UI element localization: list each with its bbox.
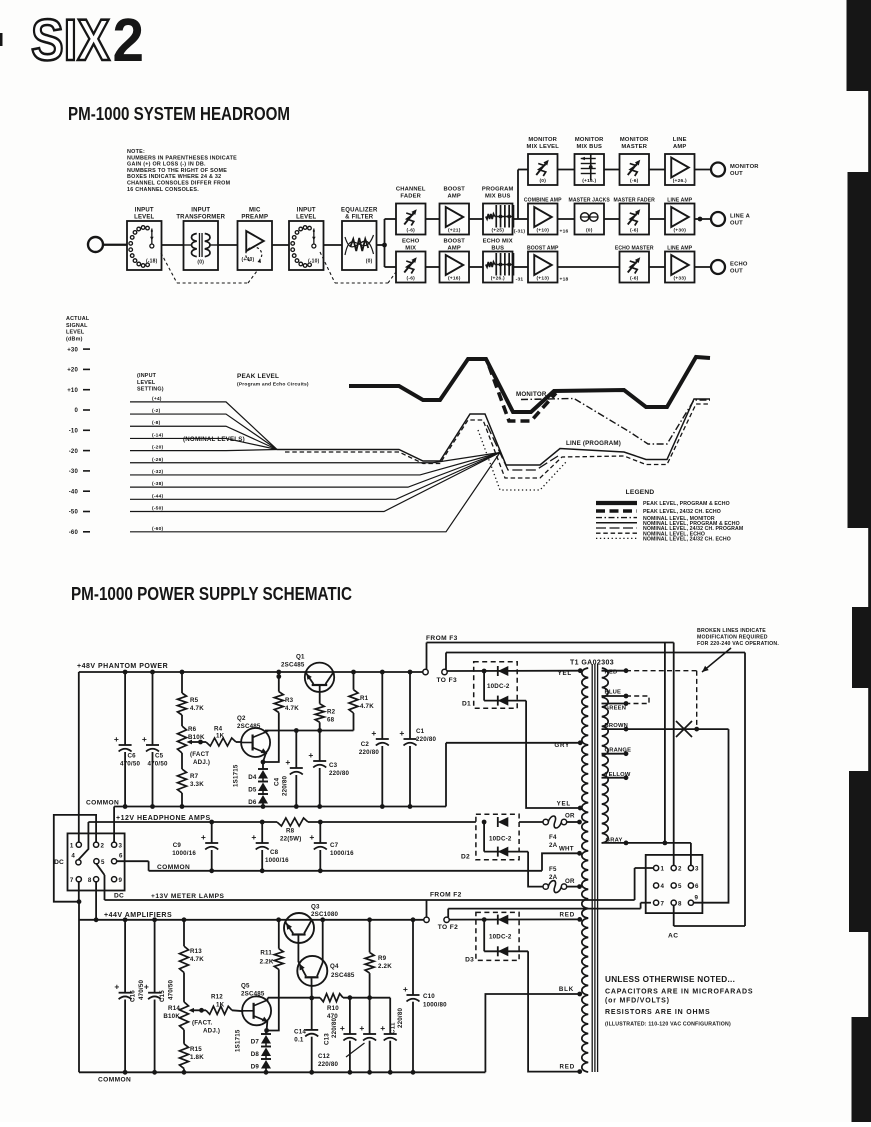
label +13V METER LAMPS bbox=[151, 893, 225, 900]
svg-text:EQUALIZER: EQUALIZER bbox=[341, 208, 378, 214]
wire left common drop bbox=[77, 899, 82, 1072]
svg-text:5: 5 bbox=[101, 859, 105, 866]
svg-text:4: 4 bbox=[661, 883, 665, 890]
svg-text:-20: -20 bbox=[69, 449, 79, 455]
transformer T1 secondary bbox=[582, 668, 588, 1072]
svg-text:+: + bbox=[308, 750, 313, 760]
wire WHT to common bbox=[542, 853, 580, 871]
curve nominal echo bbox=[285, 404, 710, 478]
wire base node bbox=[265, 728, 354, 733]
svg-text:C15: C15 bbox=[159, 990, 166, 1002]
svg-text:(-18): (-18) bbox=[146, 259, 158, 265]
svg-text:NUMBERS TO THE RIGHT OF SOME: NUMBERS TO THE RIGHT OF SOME bbox=[127, 168, 227, 174]
svg-text:D7: D7 bbox=[251, 1039, 260, 1046]
svg-text:OUT: OUT bbox=[730, 171, 743, 177]
svg-text:LINE AMP: LINE AMP bbox=[667, 246, 692, 252]
potentiometer R14 bbox=[163, 973, 220, 1035]
svg-text:7: 7 bbox=[70, 877, 74, 884]
svg-text:FOR 220-240 VAC OPERATION.: FOR 220-240 VAC OPERATION. bbox=[697, 641, 779, 647]
label OR top bbox=[565, 813, 575, 820]
svg-text:R15: R15 bbox=[190, 1046, 202, 1053]
svg-text:4.7K: 4.7K bbox=[285, 705, 299, 712]
resistor R3 bbox=[263, 672, 299, 762]
wire +44V rail bbox=[79, 917, 424, 922]
terminal F2 a bbox=[424, 900, 429, 923]
svg-text:D9: D9 bbox=[251, 1064, 260, 1071]
wire common 12V bbox=[117, 861, 542, 873]
svg-text:C7: C7 bbox=[330, 842, 339, 849]
svg-text:1K: 1K bbox=[216, 1002, 225, 1009]
svg-text:MASTER: MASTER bbox=[621, 144, 647, 150]
svg-text:9: 9 bbox=[119, 877, 123, 884]
svg-text:R7: R7 bbox=[190, 773, 199, 780]
svg-text:LEGEND: LEGEND bbox=[626, 489, 655, 496]
svg-text:-40: -40 bbox=[69, 489, 79, 495]
fan input levels upper bbox=[130, 396, 277, 451]
svg-text:AC: AC bbox=[668, 933, 679, 940]
svg-text:(-2): (-2) bbox=[152, 408, 161, 414]
wire +13V meter lamps bbox=[105, 868, 654, 900]
svg-text:SETTING): SETTING) bbox=[137, 387, 164, 393]
svg-text:ADJ.): ADJ.) bbox=[193, 759, 210, 766]
svg-text:+48V PHANTOM POWER: +48V PHANTOM POWER bbox=[77, 663, 168, 670]
label COMMON 48V bbox=[86, 800, 119, 807]
svg-text:TO F2: TO F2 bbox=[438, 924, 459, 931]
svg-text:+20: +20 bbox=[67, 368, 78, 374]
svg-text:1000/16: 1000/16 bbox=[330, 850, 354, 857]
svg-text:220/80: 220/80 bbox=[331, 1018, 338, 1038]
svg-text:R6: R6 bbox=[188, 726, 197, 733]
wire +48V rail bbox=[79, 670, 424, 675]
note text block bbox=[127, 149, 237, 193]
svg-text:8: 8 bbox=[88, 877, 92, 884]
svg-text:(-32): (-32) bbox=[152, 469, 163, 475]
svg-text:+13V METER LAMPS: +13V METER LAMPS bbox=[151, 893, 225, 900]
svg-text:2.2K: 2.2K bbox=[260, 959, 274, 966]
svg-text:(-31): (-31) bbox=[514, 229, 525, 235]
svg-text:(-20): (-20) bbox=[152, 445, 163, 451]
svg-text:220/80: 220/80 bbox=[397, 1008, 404, 1028]
svg-text:BOOST: BOOST bbox=[443, 187, 465, 193]
svg-text:MONITOR: MONITOR bbox=[516, 391, 547, 398]
svg-text:+18: +18 bbox=[560, 277, 569, 283]
svg-text:+: + bbox=[309, 832, 314, 842]
svg-text:YEL: YEL bbox=[558, 670, 572, 677]
block INPUT LEVEL bbox=[272, 208, 324, 271]
svg-text:1.8K: 1.8K bbox=[190, 1054, 204, 1061]
svg-text:4.7K: 4.7K bbox=[190, 705, 204, 712]
svg-text:(FACT: (FACT bbox=[190, 751, 209, 758]
capacitor C8 bbox=[251, 822, 289, 871]
svg-text:C4: C4 bbox=[274, 777, 281, 786]
chart input-level-setting label bbox=[137, 373, 164, 393]
svg-text:16 CHANNEL CONSOLES.: 16 CHANNEL CONSOLES. bbox=[127, 187, 199, 193]
svg-text:C5: C5 bbox=[155, 753, 164, 760]
svg-text:+: + bbox=[403, 984, 408, 994]
svg-text:2: 2 bbox=[101, 842, 105, 849]
svg-text:(+30): (+30) bbox=[673, 228, 686, 234]
svg-text:D4: D4 bbox=[248, 774, 257, 781]
connector DC bbox=[54, 833, 125, 899]
svg-text:ECHO: ECHO bbox=[730, 262, 748, 268]
svg-text:1S1715: 1S1715 bbox=[233, 764, 240, 787]
svg-text:(-38): (-38) bbox=[152, 481, 163, 487]
svg-text:Q1: Q1 bbox=[296, 654, 305, 661]
svg-text:R8: R8 bbox=[286, 828, 295, 835]
node YEL top bbox=[558, 668, 583, 677]
node OR bottom bbox=[577, 884, 582, 889]
label T1 bbox=[570, 660, 614, 667]
svg-text:220/80: 220/80 bbox=[416, 736, 436, 743]
rectifier D1 bbox=[447, 662, 579, 808]
dashed control links bbox=[161, 252, 396, 283]
svg-text:R3: R3 bbox=[285, 697, 294, 704]
resistor R15 bbox=[180, 1030, 205, 1073]
resistor R2 bbox=[315, 704, 335, 731]
svg-text:BLK: BLK bbox=[559, 986, 574, 993]
connector MONITOR OUT bbox=[711, 163, 759, 178]
curve nominal monitor bbox=[521, 399, 710, 445]
svg-text:NOTE:: NOTE: bbox=[127, 149, 145, 155]
node BLK bbox=[559, 986, 582, 996]
svg-text:C12: C12 bbox=[318, 1053, 330, 1060]
svg-text:C14: C14 bbox=[294, 1029, 306, 1036]
svg-text:(-6): (-6) bbox=[630, 178, 639, 184]
svg-text:MIC: MIC bbox=[249, 208, 261, 214]
svg-text:AMP: AMP bbox=[673, 144, 686, 150]
wire FROM F3 bbox=[427, 643, 674, 670]
svg-text:1: 1 bbox=[70, 842, 74, 849]
monitor chain bbox=[518, 137, 711, 219]
svg-text:R1: R1 bbox=[360, 695, 369, 702]
label COMMON 44V bbox=[98, 1077, 131, 1084]
terminal F2 b bbox=[444, 917, 449, 922]
svg-text:C13: C13 bbox=[324, 1033, 331, 1045]
svg-text:R12: R12 bbox=[211, 994, 223, 1001]
svg-text:+: + bbox=[201, 832, 206, 842]
wire DC pin2 loop bbox=[54, 815, 96, 902]
svg-text:220/80: 220/80 bbox=[282, 776, 289, 796]
svg-text:MIX BUS: MIX BUS bbox=[485, 194, 511, 200]
svg-text:(-6): (-6) bbox=[407, 276, 416, 282]
svg-text:COMMON: COMMON bbox=[157, 864, 190, 871]
svg-text:D3: D3 bbox=[465, 957, 474, 964]
block EQUALIZER & FILTER bbox=[324, 208, 378, 271]
resistor R4 bbox=[201, 726, 237, 747]
fuse F4 bbox=[519, 816, 579, 849]
svg-text:+: + bbox=[359, 1023, 364, 1033]
label TO F3 bbox=[437, 677, 458, 684]
svg-text:(INPUT: (INPUT bbox=[137, 373, 157, 379]
svg-text:C6: C6 bbox=[128, 753, 137, 760]
resistor R7 bbox=[178, 753, 205, 807]
wire DC pin4 riser bbox=[78, 822, 88, 860]
svg-text:TRANSFORMER: TRANSFORMER bbox=[176, 215, 225, 221]
svg-text:2SC485: 2SC485 bbox=[237, 723, 261, 730]
label +48V PHANTOM POWER bbox=[77, 663, 168, 670]
wire +48V left drop to DC pin1 bbox=[78, 672, 80, 842]
label OR bottom bbox=[565, 878, 575, 885]
svg-text:INPUT: INPUT bbox=[297, 208, 316, 214]
svg-text:LEVEL: LEVEL bbox=[137, 380, 156, 386]
svg-text:(+25): (+25) bbox=[491, 228, 504, 234]
svg-text:R9: R9 bbox=[378, 955, 387, 962]
capacitor C5 bbox=[142, 672, 168, 807]
svg-text:C10: C10 bbox=[423, 993, 435, 1000]
svg-text:MIX: MIX bbox=[405, 246, 416, 252]
label +12V HEADPHONE AMPS bbox=[116, 815, 211, 822]
svg-text:220/80: 220/80 bbox=[329, 770, 349, 777]
svg-text:R14: R14 bbox=[168, 1005, 180, 1012]
transformer primary taps bbox=[602, 668, 632, 845]
svg-text:4.7K: 4.7K bbox=[360, 703, 374, 710]
capacitor C6 bbox=[114, 672, 141, 807]
wire AC pin9 brown bbox=[694, 729, 729, 903]
svg-text:COMMON: COMMON bbox=[98, 1077, 131, 1084]
svg-text:WHT: WHT bbox=[559, 846, 574, 853]
connector ECHO OUT bbox=[711, 260, 748, 275]
svg-text:-30: -30 bbox=[69, 469, 79, 475]
svg-text:0: 0 bbox=[74, 408, 78, 414]
wire Q5 collector bbox=[266, 998, 269, 1001]
svg-text:1000/16: 1000/16 bbox=[172, 850, 196, 857]
svg-text:AMP: AMP bbox=[448, 194, 461, 200]
svg-text:(+26.): (+26.) bbox=[673, 178, 687, 184]
svg-text:DC: DC bbox=[54, 859, 64, 866]
svg-text:22(5W): 22(5W) bbox=[280, 836, 302, 843]
svg-text:2: 2 bbox=[678, 866, 682, 873]
capacitor C12 bbox=[318, 998, 376, 1073]
svg-text:(NOMINAL LEVELS): (NOMINAL LEVELS) bbox=[183, 436, 245, 443]
wire common rail 44V bbox=[79, 1070, 485, 1075]
svg-text:(-6): (-6) bbox=[630, 276, 639, 282]
wire DC pin5 drop bbox=[96, 864, 104, 875]
svg-text:MIX BUS: MIX BUS bbox=[576, 144, 602, 150]
svg-text:D6: D6 bbox=[248, 799, 257, 806]
svg-text:-50: -50 bbox=[69, 510, 79, 516]
svg-text:+: + bbox=[340, 1023, 345, 1033]
label monitor bbox=[516, 391, 547, 398]
svg-text:BROKEN LINES INDICATE: BROKEN LINES INDICATE bbox=[697, 628, 766, 634]
svg-text:R5: R5 bbox=[190, 697, 199, 704]
fuse F5 bbox=[543, 866, 580, 893]
label peak level bbox=[237, 373, 309, 388]
capacitor C7 bbox=[309, 822, 354, 871]
svg-text:0.1: 0.1 bbox=[294, 1037, 304, 1044]
label FROM F3 bbox=[426, 635, 458, 642]
label WHT bbox=[559, 846, 574, 853]
svg-text:10DC-2: 10DC-2 bbox=[489, 934, 512, 941]
svg-text:+: + bbox=[399, 728, 404, 738]
svg-text:RED: RED bbox=[560, 1064, 575, 1071]
svg-text:RESISTORS ARE IN OHMS: RESISTORS ARE IN OHMS bbox=[605, 1009, 710, 1016]
svg-text:ECHO MIX: ECHO MIX bbox=[483, 239, 513, 245]
resistor R5 bbox=[178, 672, 205, 715]
svg-text:1: 1 bbox=[661, 866, 665, 873]
svg-text:(-8): (-8) bbox=[152, 420, 161, 426]
svg-text:-31: -31 bbox=[516, 277, 524, 283]
wire RED mod dashed bbox=[626, 671, 697, 729]
svg-text:FADER: FADER bbox=[400, 194, 421, 200]
svg-text:ECHO: ECHO bbox=[402, 239, 420, 245]
mod X mark bbox=[676, 721, 692, 737]
svg-text:5: 5 bbox=[678, 883, 682, 890]
svg-text:PREAMP: PREAMP bbox=[241, 215, 268, 221]
svg-text:GAIN (+) OR LOSS (-) IN DB.: GAIN (+) OR LOSS (-) IN DB. bbox=[127, 162, 206, 168]
svg-text:C2: C2 bbox=[361, 741, 370, 748]
transistor Q2 bbox=[236, 715, 270, 757]
svg-text:DC: DC bbox=[114, 893, 124, 900]
diodes D4 D5 D6 bbox=[233, 764, 269, 807]
svg-text:FROM F2: FROM F2 bbox=[430, 892, 462, 899]
svg-text:(+10): (+10) bbox=[536, 228, 549, 234]
svg-text:2.2K: 2.2K bbox=[378, 963, 392, 970]
svg-text:+16: +16 bbox=[560, 229, 569, 235]
svg-text:3.3K: 3.3K bbox=[190, 781, 204, 788]
svg-text:+10: +10 bbox=[67, 388, 78, 394]
svg-text:LEVEL: LEVEL bbox=[66, 330, 85, 336]
capacitor C9 bbox=[172, 822, 218, 871]
svg-text:ECHO MASTER: ECHO MASTER bbox=[615, 246, 654, 252]
wire Q2 collector to node bbox=[266, 731, 268, 732]
svg-text:(-44): (-44) bbox=[152, 493, 163, 499]
svg-text:9: 9 bbox=[695, 895, 699, 902]
svg-text:GREEN: GREEN bbox=[605, 706, 627, 712]
svg-text:C3: C3 bbox=[329, 762, 338, 769]
svg-text:Q2: Q2 bbox=[237, 715, 246, 722]
svg-text:ORANGE: ORANGE bbox=[605, 748, 632, 754]
svg-text:C8: C8 bbox=[270, 849, 279, 856]
svg-text:Q4: Q4 bbox=[330, 963, 339, 970]
svg-text:470/50: 470/50 bbox=[148, 761, 168, 768]
svg-text:10DC-2: 10DC-2 bbox=[487, 683, 510, 690]
svg-text:BROWN: BROWN bbox=[605, 723, 629, 729]
svg-text:8: 8 bbox=[678, 900, 682, 907]
transistor Q5 bbox=[232, 983, 271, 1026]
svg-text:1000/80: 1000/80 bbox=[423, 1002, 447, 1009]
curve nominal 24/32 program bbox=[487, 425, 558, 470]
svg-text:10DC-2: 10DC-2 bbox=[489, 836, 512, 843]
svg-text:F5: F5 bbox=[549, 866, 557, 873]
svg-text:+: + bbox=[142, 734, 147, 744]
svg-text:MONITOR: MONITOR bbox=[575, 137, 604, 143]
svg-text:CAPACITORS ARE IN MICROFARADS: CAPACITORS ARE IN MICROFARADS bbox=[605, 989, 753, 996]
svg-text:C9: C9 bbox=[173, 842, 182, 849]
svg-text:BUS: BUS bbox=[491, 246, 504, 252]
svg-text:PEAK LEVEL, PROGRAM & ECHO: PEAK LEVEL, PROGRAM & ECHO bbox=[643, 501, 730, 507]
svg-text:OR: OR bbox=[565, 813, 575, 820]
svg-text:F4: F4 bbox=[549, 834, 557, 841]
svg-text:+12V HEADPHONE AMPS: +12V HEADPHONE AMPS bbox=[116, 815, 211, 822]
diodes D7 D8 D9 bbox=[235, 1029, 272, 1072]
svg-text:MODIFICATION REQUIRED: MODIFICATION REQUIRED bbox=[697, 635, 768, 641]
svg-text:LINE (PROGRAM): LINE (PROGRAM) bbox=[566, 440, 621, 447]
svg-text:(-14): (-14) bbox=[152, 432, 163, 438]
svg-text:LINE A: LINE A bbox=[730, 214, 751, 220]
svg-text:+: + bbox=[114, 734, 119, 744]
rectifier D3 bbox=[449, 912, 578, 1071]
curve nominal 24/32 echo bbox=[478, 430, 566, 490]
svg-text:ACTUAL: ACTUAL bbox=[66, 316, 90, 322]
svg-text:2SC485: 2SC485 bbox=[281, 662, 305, 669]
svg-text:(-6): (-6) bbox=[407, 228, 416, 234]
fan input levels lower bbox=[130, 453, 500, 532]
transistor Q3 bbox=[284, 904, 339, 963]
wire BROWN line bbox=[626, 727, 729, 732]
chart axis title bbox=[66, 316, 90, 342]
svg-text:(+26.): (+26.) bbox=[491, 276, 505, 282]
svg-text:(0): (0) bbox=[539, 178, 546, 184]
svg-text:(-60): (-60) bbox=[152, 526, 163, 532]
svg-text:BLUE: BLUE bbox=[605, 690, 622, 696]
svg-text:GRY: GRY bbox=[554, 742, 570, 749]
svg-text:& FILTER: & FILTER bbox=[345, 215, 374, 221]
svg-text:+: + bbox=[380, 1023, 385, 1033]
svg-text:(ILLUSTRATED: 110-120 VAC CONF: (ILLUSTRATED: 110-120 VAC CONFIGURATION) bbox=[605, 1022, 731, 1028]
svg-text:(+16): (+16) bbox=[448, 276, 461, 282]
svg-text:OUT: OUT bbox=[730, 269, 743, 275]
svg-text:(+40): (+40) bbox=[242, 257, 255, 263]
svg-text:PROGRAM: PROGRAM bbox=[482, 187, 514, 193]
svg-text:1K: 1K bbox=[216, 733, 225, 740]
svg-text:LINE: LINE bbox=[673, 137, 687, 143]
node channel split bbox=[377, 219, 387, 267]
transistor Q1 bbox=[281, 654, 334, 704]
svg-text:C16: C16 bbox=[130, 990, 137, 1002]
svg-text:OUT: OUT bbox=[730, 221, 743, 227]
svg-text:3: 3 bbox=[695, 866, 699, 873]
svg-text:220/80: 220/80 bbox=[359, 749, 379, 756]
connector AC bbox=[646, 855, 703, 940]
capacitor C10 bbox=[403, 920, 447, 1073]
node RED top bbox=[560, 912, 583, 922]
svg-text:2SC485: 2SC485 bbox=[331, 972, 355, 979]
svg-text:(0): (0) bbox=[366, 259, 373, 265]
svg-text:MIX LEVEL: MIX LEVEL bbox=[527, 144, 560, 150]
svg-text:TO F3: TO F3 bbox=[437, 677, 458, 684]
svg-text:4.7K: 4.7K bbox=[190, 956, 204, 963]
wire DC pin8 drop bbox=[95, 882, 97, 920]
svg-text:1S1715: 1S1715 bbox=[235, 1029, 242, 1052]
connector LINE A OUT bbox=[711, 212, 751, 227]
svg-text:(+16.): (+16.) bbox=[582, 178, 596, 184]
svg-text:(or MFD/VOLTS): (or MFD/VOLTS) bbox=[605, 998, 670, 1005]
svg-text:(-50): (-50) bbox=[152, 506, 163, 512]
svg-text:INPUT: INPUT bbox=[135, 208, 154, 214]
wire Q4 collector riser bbox=[320, 917, 325, 962]
capacitor C1 bbox=[399, 672, 436, 807]
svg-text:-60: -60 bbox=[69, 530, 79, 536]
svg-text:D5: D5 bbox=[248, 787, 257, 794]
label line program bbox=[566, 440, 621, 447]
svg-text:+: + bbox=[251, 832, 256, 842]
svg-text:(-10): (-10) bbox=[308, 259, 320, 265]
transformer core bbox=[592, 664, 597, 1072]
svg-text:UNLESS OTHERWISE NOTED...: UNLESS OTHERWISE NOTED... bbox=[605, 975, 735, 984]
svg-text:FROM F3: FROM F3 bbox=[426, 635, 458, 642]
rectifier D2 bbox=[461, 814, 543, 886]
svg-text:(dBm): (dBm) bbox=[66, 336, 83, 342]
label +44V AMPLIFIERS bbox=[104, 912, 172, 919]
svg-text:AMP: AMP bbox=[448, 246, 461, 252]
capacitor C16 bbox=[114, 920, 145, 1073]
svg-text:(-6): (-6) bbox=[630, 228, 639, 234]
svg-text:-10: -10 bbox=[69, 429, 79, 435]
svg-text:3: 3 bbox=[119, 842, 123, 849]
svg-text:6: 6 bbox=[119, 853, 123, 860]
wire common rail 48V bbox=[114, 804, 446, 809]
wire output node bbox=[268, 995, 390, 1000]
